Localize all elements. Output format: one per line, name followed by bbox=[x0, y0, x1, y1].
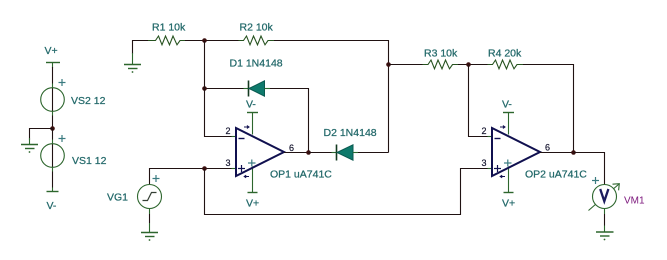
svg-text:VS1 12: VS1 12 bbox=[72, 155, 107, 167]
svg-text:V+: V+ bbox=[246, 198, 259, 210]
svg-text:2: 2 bbox=[482, 126, 487, 136]
node junction (388,64) bbox=[386, 62, 391, 67]
wire R3 rail bbox=[389, 64, 423, 66]
OP2 V- power terminal bbox=[503, 113, 514, 135]
OP1 V+ power terminal bbox=[248, 167, 258, 193]
svg-text:D1 1N4148: D1 1N4148 bbox=[230, 58, 283, 70]
svg-text:6: 6 bbox=[289, 143, 294, 153]
node junction (468,64) bbox=[466, 62, 471, 67]
wire VM1 bottom lead bbox=[604, 209, 606, 215]
OP2 V+ power terminal bbox=[504, 167, 514, 193]
node junction (204,88) bbox=[202, 86, 207, 91]
diode D1 bbox=[249, 81, 265, 97]
svg-text:R1 10k: R1 10k bbox=[152, 22, 186, 34]
op-amp OP1 bbox=[236, 126, 284, 178]
VS1 plus marker bbox=[59, 135, 66, 142]
resistor R2 bbox=[239, 36, 275, 45]
node junction (308,152) bbox=[306, 150, 311, 155]
wire R2 right to corner and down bbox=[274, 41, 389, 153]
ground (top-left) bbox=[124, 53, 141, 73]
svg-text:6: 6 bbox=[545, 143, 550, 153]
ground (source stack) bbox=[21, 138, 38, 153]
wire R4 right to corner down to OP2 output bbox=[523, 65, 574, 153]
svg-text:R2 10k: R2 10k bbox=[240, 22, 274, 34]
wire VG1 bottom lead bbox=[149, 209, 151, 215]
node junction between VS2/VS1 bbox=[50, 126, 55, 131]
wire output node to D2 bbox=[309, 152, 332, 154]
svg-text:3: 3 bbox=[226, 158, 231, 168]
OP1 V- power terminal bbox=[247, 113, 258, 135]
ground (VM1) bbox=[596, 232, 614, 240]
wire OP1 output bbox=[284, 152, 309, 154]
ground (VG1) bbox=[141, 233, 158, 241]
terminal V- (below VS1) bbox=[47, 191, 59, 193]
wire R1 to R2 bbox=[185, 40, 239, 42]
VG1 plus marker bbox=[153, 175, 160, 182]
svg-text:V-: V- bbox=[246, 99, 256, 111]
wire R3 to R4 bbox=[458, 64, 488, 66]
wire D1 row from node to diode bbox=[205, 88, 244, 90]
wire VG1 to pin3 bbox=[150, 169, 237, 185]
generator VG1 bbox=[138, 185, 162, 209]
wire D1 right, down to OP1 output bbox=[265, 88, 271, 90]
svg-text:VS2 12: VS2 12 bbox=[71, 95, 106, 107]
wire D2 right to x=388 column bbox=[353, 152, 358, 154]
svg-text:D2 1N4148: D2 1N4148 bbox=[324, 127, 377, 139]
VS2 plus marker bbox=[59, 79, 66, 86]
terminal V+ (top-left source stack) bbox=[46, 63, 60, 69]
voltmeter VM1 bbox=[589, 177, 620, 211]
offset arrows bbox=[244, 126, 249, 178]
op-amp OP2 bbox=[492, 126, 540, 178]
svg-text:VM1: VM1 bbox=[624, 196, 645, 207]
svg-text:V-: V- bbox=[502, 99, 512, 111]
svg-text:3: 3 bbox=[482, 158, 487, 168]
svg-text:OP2 uA741C: OP2 uA741C bbox=[525, 169, 587, 181]
wire bottom net pin3 OP1 to pin3 OP2 bbox=[205, 169, 493, 215]
svg-text:V-: V- bbox=[47, 200, 57, 212]
svg-text:OP1 uA741C: OP1 uA741C bbox=[270, 169, 332, 181]
wire OP2 output bbox=[540, 152, 574, 154]
wire top-left from ground corner to R1 bbox=[133, 41, 149, 55]
source VS1 bbox=[52, 129, 54, 140]
wire V+ to VS2 bbox=[52, 67, 54, 84]
wire junction to ground bbox=[30, 129, 53, 141]
svg-text:V+: V+ bbox=[502, 198, 515, 210]
wire OP2 pin2 from node (468,64) bbox=[469, 65, 493, 137]
source VS2 bbox=[41, 88, 65, 112]
svg-text:V+: V+ bbox=[45, 45, 58, 57]
OP2 input pin stubs bbox=[488, 137, 493, 169]
wire output to voltmeter bbox=[574, 153, 605, 186]
svg-text:VG1: VG1 bbox=[107, 192, 128, 204]
svg-text:R3 10k: R3 10k bbox=[424, 48, 458, 60]
resistor R3 bbox=[423, 60, 459, 69]
node junction (204,168) bbox=[202, 166, 207, 171]
OP1 input pin stubs bbox=[232, 137, 237, 169]
svg-text:2: 2 bbox=[226, 126, 231, 136]
wire vertical node column x=204 to pin2 bbox=[205, 41, 237, 137]
node junction (573,152) bbox=[571, 150, 576, 155]
node junction (204,40) bbox=[202, 38, 207, 43]
diode D2 bbox=[337, 145, 354, 161]
svg-text:R4 20k: R4 20k bbox=[488, 48, 522, 60]
resistor R4 bbox=[488, 60, 524, 69]
resistor R1 bbox=[148, 36, 185, 45]
